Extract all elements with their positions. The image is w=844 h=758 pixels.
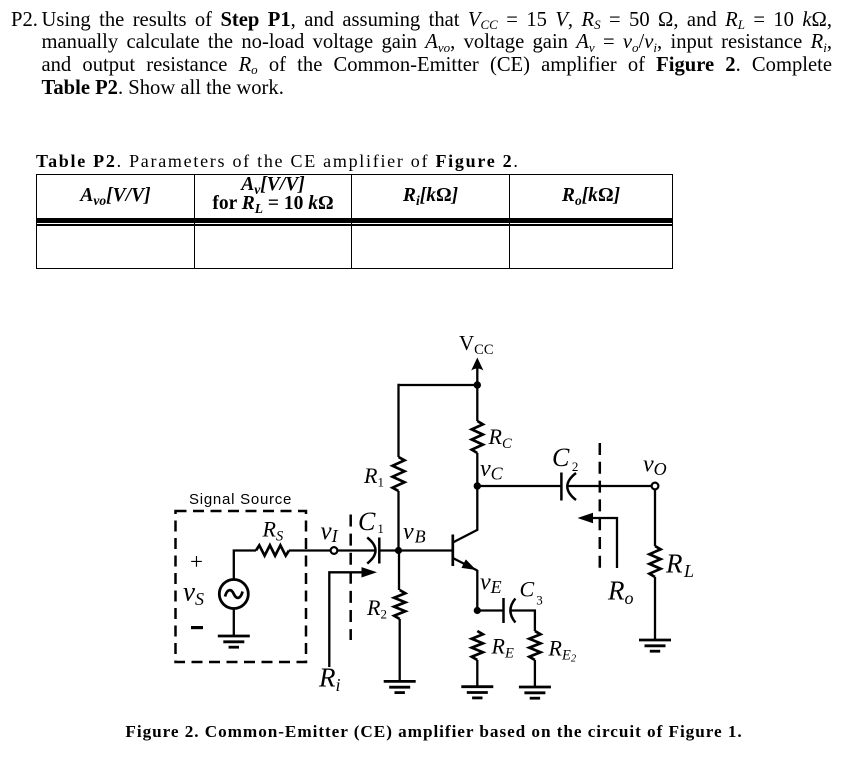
wire RE2 bottom lead xyxy=(534,660,536,687)
wire emitter lead xyxy=(476,570,478,611)
plus label xyxy=(190,549,203,574)
header cells xyxy=(37,186,194,205)
svg-text:Ro: Ro xyxy=(607,576,634,608)
ground below source xyxy=(218,636,250,647)
svg-text:R1: R1 xyxy=(363,463,384,490)
wire source to ground xyxy=(233,609,235,637)
Ro arrow xyxy=(578,513,634,608)
svg-text:VCC: VCC xyxy=(459,331,494,358)
wire base lead xyxy=(399,549,453,551)
capacitor C2 xyxy=(552,443,578,501)
capacitor C1 xyxy=(358,507,384,564)
resistor RE xyxy=(472,631,514,661)
wire R1 top lead xyxy=(397,384,399,457)
resistor RE2 xyxy=(529,631,577,665)
wire RC leads xyxy=(476,385,478,486)
figure caption xyxy=(24,722,844,742)
paragraph label P2. xyxy=(11,9,38,32)
svg-text:RC: RC xyxy=(488,424,512,452)
wire C3 to RE2 xyxy=(511,611,535,632)
node vO xyxy=(643,452,667,490)
svg-text:Signal Source: Signal Source xyxy=(189,491,292,508)
svg-text:Ri: Ri xyxy=(318,663,341,695)
Ri arrow xyxy=(318,567,377,695)
vs source label xyxy=(183,577,204,609)
wire source to RS xyxy=(234,551,256,580)
minus label xyxy=(191,626,203,629)
svg-text:vS: vS xyxy=(183,577,204,609)
ground below R2 xyxy=(384,681,416,692)
svg-text:vB: vB xyxy=(403,519,426,547)
resistor RL xyxy=(649,546,694,581)
svg-text:C2: C2 xyxy=(552,443,578,474)
svg-text:vE: vE xyxy=(480,570,502,598)
svg-text:vI: vI xyxy=(321,518,339,546)
wire R1 bottom lead xyxy=(397,491,399,551)
wire collector lead xyxy=(476,486,478,531)
svg-text:RL: RL xyxy=(665,549,694,582)
wire C2 to vO xyxy=(568,485,652,487)
node vB xyxy=(395,519,426,554)
svg-text:+: + xyxy=(190,549,203,574)
Vcc arrow xyxy=(471,358,483,386)
svg-text:R2: R2 xyxy=(366,595,387,622)
wire RL bottom lead xyxy=(654,577,656,640)
resistor RS xyxy=(256,517,289,556)
Vcc label xyxy=(459,331,494,358)
capacitor C3 xyxy=(504,577,543,624)
node Vcc rail junction xyxy=(474,381,481,388)
node vE xyxy=(474,570,502,615)
source vs circle xyxy=(219,580,248,609)
vertical borders xyxy=(194,175,195,268)
svg-text:RE: RE xyxy=(491,634,514,662)
table caption xyxy=(36,151,520,172)
thick double header separator xyxy=(37,218,672,223)
signal source title xyxy=(189,491,292,508)
svg-text:RS: RS xyxy=(262,517,284,545)
ground below RL xyxy=(639,640,671,651)
Ro dashed boundary xyxy=(599,443,602,568)
paragraph body xyxy=(42,9,833,100)
transistor Q1 xyxy=(453,530,478,571)
resistor R2 xyxy=(366,590,405,622)
wire vE to C3 xyxy=(477,609,503,611)
wire vI to C1 xyxy=(337,549,375,551)
wire vO to RL xyxy=(654,490,656,547)
wire RS to vI xyxy=(289,549,331,551)
wire top rail xyxy=(399,384,478,386)
Ri dashed boundary xyxy=(349,515,352,641)
wire C1 to vB xyxy=(379,549,398,551)
svg-text:C3: C3 xyxy=(520,577,543,608)
node vI xyxy=(321,518,339,554)
ground below RE2 xyxy=(519,687,551,698)
ground below RE xyxy=(461,687,493,698)
svg-text:vC: vC xyxy=(480,456,504,484)
svg-text:vO: vO xyxy=(643,452,667,480)
wire RE bottom lead xyxy=(476,660,478,687)
table P2 xyxy=(36,174,673,269)
resistor R1 xyxy=(363,457,405,491)
svg-text:RE2: RE2 xyxy=(548,636,577,665)
signal source dashed box xyxy=(176,511,307,662)
resistor RC xyxy=(472,421,512,453)
wire R2 leads xyxy=(398,551,401,682)
wire vC to C2 xyxy=(477,485,561,487)
svg-text:C1: C1 xyxy=(358,507,384,536)
node vC xyxy=(474,456,504,490)
